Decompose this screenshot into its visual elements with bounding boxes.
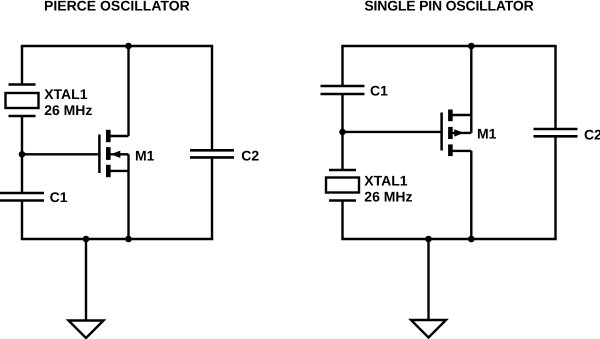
- wire left vertical bottom (left circuit): [21, 201, 23, 240]
- wire right vertical bottom (right circuit): [554, 136, 556, 239]
- wire left vertical mid (right circuit): [341, 94, 343, 170]
- svg-text:M1: M1: [135, 148, 155, 164]
- body arrow: [111, 151, 121, 158]
- source tap: [450, 150, 471, 152]
- wire bottom rail (right circuit): [341, 238, 556, 240]
- svg-text:XTAL1: XTAL1: [364, 173, 408, 189]
- body line: [453, 132, 472, 134]
- transistor M1 (right): [442, 110, 472, 157]
- drain tap: [108, 135, 128, 137]
- gate bar: [98, 135, 101, 174]
- channel top bar: [448, 110, 453, 122]
- svg-text:PIERCE OSCILLATOR: PIERCE OSCILLATOR: [44, 0, 190, 14]
- wire left vertical top (left circuit): [21, 46, 23, 85]
- svg-text:C2: C2: [241, 147, 259, 163]
- svg-text:C2: C2: [584, 127, 600, 143]
- wire left vertical top (right circuit): [341, 46, 343, 86]
- channel middle bar: [106, 147, 111, 160]
- wire left vertical bottom (right circuit): [341, 201, 343, 240]
- wire source vertical (left): [127, 154, 129, 239]
- svg-text:C1: C1: [50, 189, 68, 205]
- gate bar: [440, 113, 443, 151]
- crystal XTAL1 (left): [6, 85, 39, 117]
- svg-text:SINGLE PIN OSCILLATOR: SINGLE PIN OSCILLATOR: [364, 0, 533, 14]
- wire top rail (left circuit): [21, 45, 213, 47]
- capacitor C2 (right): [534, 129, 578, 136]
- node junction source-rail (right): [468, 236, 475, 243]
- wire left vertical mid (left circuit): [21, 116, 23, 193]
- wire drain vertical (left): [127, 46, 129, 136]
- node junction drain-rail (right): [468, 43, 475, 50]
- wire right vertical top (left circuit): [211, 46, 213, 150]
- wire ground stem (left): [85, 239, 87, 321]
- channel bottom bar: [448, 144, 453, 156]
- node junction drain-rail (left): [125, 43, 132, 50]
- drain tap: [450, 114, 471, 116]
- wire ground stem (right): [427, 239, 429, 320]
- capacitor C1 (right): [321, 86, 365, 94]
- ground (right): [411, 320, 446, 338]
- channel middle bar: [448, 127, 453, 139]
- svg-text:26 MHz: 26 MHz: [44, 102, 92, 118]
- wire source vertical (right): [470, 151, 472, 239]
- svg-text:XTAL1: XTAL1: [44, 86, 88, 102]
- wire right vertical bottom (left circuit): [211, 157, 213, 239]
- svg-text:26 MHz: 26 MHz: [364, 189, 412, 205]
- node junction source-rail (left): [125, 236, 132, 243]
- channel bottom bar: [106, 165, 111, 177]
- svg-text:M1: M1: [477, 126, 497, 142]
- node junction ground (right): [425, 236, 432, 243]
- body arrow: [454, 129, 464, 136]
- capacitor C1 (left): [0, 193, 44, 201]
- wire drain vertical (right): [470, 46, 472, 133]
- wire top rail (right circuit): [341, 45, 556, 47]
- wire bottom rail (left circuit): [21, 238, 213, 240]
- source tap: [108, 170, 128, 172]
- ground (left): [69, 321, 104, 339]
- node junction gate (left): [19, 151, 26, 158]
- node junction gate (right): [339, 129, 346, 136]
- capacitor C2 (left): [190, 150, 234, 157]
- channel top bar: [106, 130, 111, 142]
- svg-text:C1: C1: [370, 83, 388, 99]
- wire gate lead (left): [22, 153, 98, 155]
- wire gate lead (right): [343, 131, 441, 133]
- wire right vertical top (right circuit): [554, 46, 556, 129]
- transistor M1 (left): [99, 130, 128, 177]
- body line: [111, 153, 129, 155]
- node junction ground (left): [83, 236, 90, 243]
- crystal XTAL1 (right): [326, 170, 359, 201]
